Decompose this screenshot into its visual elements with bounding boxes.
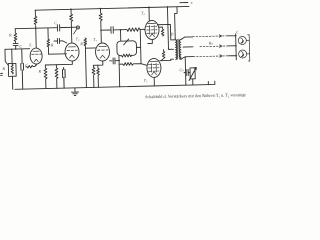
speaker 2 (239, 50, 250, 58)
wire rail to V4 top (148, 7, 150, 20)
capacitor right of box (20, 49, 24, 89)
svg-text:T₅: T₅ (144, 77, 148, 82)
secondary leads (181, 37, 194, 59)
wire V3 plate node to right (101, 29, 110, 31)
capacitor C splitter (111, 26, 127, 33)
caption text (145, 92, 247, 99)
dashed line upper (193, 35, 228, 38)
wire V5 plate to transformer (160, 59, 174, 61)
svg-text:C: C (236, 30, 239, 34)
junction dots speaker bus (235, 35, 237, 37)
dashed line lower (193, 55, 228, 58)
page edge marks left (1, 73, 3, 75)
speaker 1 (238, 36, 249, 44)
resistor R cathode V3 second (97, 65, 100, 87)
bottom ground rail (15, 81, 215, 89)
wire V3 cathode (93, 61, 103, 65)
svg-text:T₄: T₄ (141, 10, 145, 15)
wire V4 cathode down (148, 39, 153, 43)
resistor inside input box (11, 64, 13, 74)
capacitor Ca output (184, 69, 190, 75)
resistor screen V5 (161, 50, 165, 61)
resistor screen V4 (159, 27, 164, 36)
terminal blob end of wire (76, 26, 79, 29)
splitter loop network (117, 41, 137, 52)
arrow upper (219, 35, 222, 38)
resistor Rg input grid (14, 29, 17, 43)
transformer Tr primary coil (175, 40, 177, 60)
wire loop area to V5 grid with zigzag (119, 62, 147, 66)
resistor R1 plate load V1 (34, 10, 38, 48)
svg-text:R: R (1, 66, 5, 71)
ground symbol (71, 88, 78, 96)
wire node up to loop (118, 56, 120, 61)
grid wire V3 (85, 47, 95, 49)
grid wire to V2 (49, 53, 67, 55)
wire rail to transformer top (174, 7, 177, 39)
junction dot rail x72 (70, 8, 72, 10)
junction dot x118.8 (118, 60, 120, 62)
transformer Tr core (177, 39, 179, 59)
pot with arrow in loop top (124, 39, 129, 45)
wire V5 cathode to rail (153, 77, 155, 85)
tube V3 (95, 43, 109, 61)
lead blob to V2 top (73, 29, 77, 34)
wiper from grid node into box (5, 49, 8, 65)
resistor R grid leak V3 (84, 38, 88, 88)
svg-text:C: C (19, 44, 22, 49)
arrow lower (220, 55, 223, 58)
wire drop to loop top (120, 30, 122, 41)
label minus top right (180, 1, 188, 3)
grid node wire to left and V1 (5, 48, 30, 51)
wire cathode V1 node (36, 63, 62, 65)
svg-text:Tr: Tr (170, 31, 174, 36)
svg-text:R: R (37, 69, 41, 74)
circuit schematic: push-pull tube amplifier (0, 0, 254, 100)
wire cathode V2 (62, 61, 72, 65)
svg-text:T₁: T₁ (29, 42, 33, 47)
wire secondary bottom to cap (184, 57, 186, 73)
capacitor on long wire (57, 25, 59, 31)
resistor R grid leak V2 (55, 65, 58, 89)
wire V4 plate to transformer (157, 24, 175, 40)
resistor R cathode V1 (44, 65, 47, 89)
svg-text:C: C (54, 21, 57, 25)
tube V4 (output upper) (145, 20, 159, 39)
junction dot rail x101 (100, 8, 102, 10)
wire loop right to grid node (136, 30, 141, 64)
wire secondary top to dashes (185, 37, 193, 57)
resistor cathode link V1 horizontal (26, 64, 37, 68)
svg-text:R: R (50, 42, 54, 47)
wire node down to rail (118, 61, 121, 87)
resistor R cathode V3 (92, 65, 95, 87)
tube V2 (65, 43, 79, 61)
svg-text:+: + (21, 72, 23, 76)
wire box to rail and node (11, 49, 14, 89)
capacitor C interstage on stub (54, 38, 67, 43)
transformer Tr secondary coil (179, 40, 181, 60)
junction dot rail x150 (148, 7, 150, 9)
resistor R2 plate load V2 (69, 9, 73, 43)
capacitor C cathode bypass (62, 68, 65, 89)
resistor R splitter (horizontal wavy) (127, 28, 145, 32)
svg-text:Rₖ: Rₖ (208, 40, 214, 45)
input box (volume control) (8, 63, 16, 76)
tube V1 (30, 48, 42, 64)
resistor zigzag in loop bottom (121, 54, 131, 57)
tube V5 (output lower) (147, 58, 161, 77)
junction dot grid node (15, 48, 17, 50)
arrow middle (219, 45, 222, 48)
interstage drop wire (47, 28, 49, 39)
potentiometer output (190, 68, 195, 79)
speaker bus (228, 34, 237, 60)
speaker right bracket (248, 35, 250, 61)
junction dot R1 riser (35, 27, 37, 29)
capacitor Cg input (13, 43, 18, 49)
resistor R3 plate load V3 (99, 9, 103, 43)
svg-text:+: + (190, 1, 193, 7)
wire center tap riser (167, 7, 173, 50)
junction dot rail x168 (167, 6, 169, 8)
dashed line middle (200, 45, 228, 48)
svg-text:Schaltbild d. Verstärkers mit: Schaltbild d. Verstärkers mit den Röhren… (145, 92, 247, 99)
svg-text:R: R (79, 41, 83, 46)
junction dot drop to loop (120, 29, 122, 31)
svg-text:R: R (8, 32, 12, 37)
wire transformer primary top lead (174, 38, 176, 39)
long grid wire upper left (15, 27, 76, 28)
top B+ rail (35, 6, 189, 10)
resistor R grid V2 vertical (47, 39, 50, 54)
wire V3 anode side to node with capacitor (110, 58, 119, 64)
svg-text:T₃: T₃ (93, 37, 97, 42)
wire pot to rail (186, 72, 193, 85)
junction dot plate riser (100, 29, 102, 31)
svg-text:Cₖ: Cₖ (179, 67, 184, 72)
